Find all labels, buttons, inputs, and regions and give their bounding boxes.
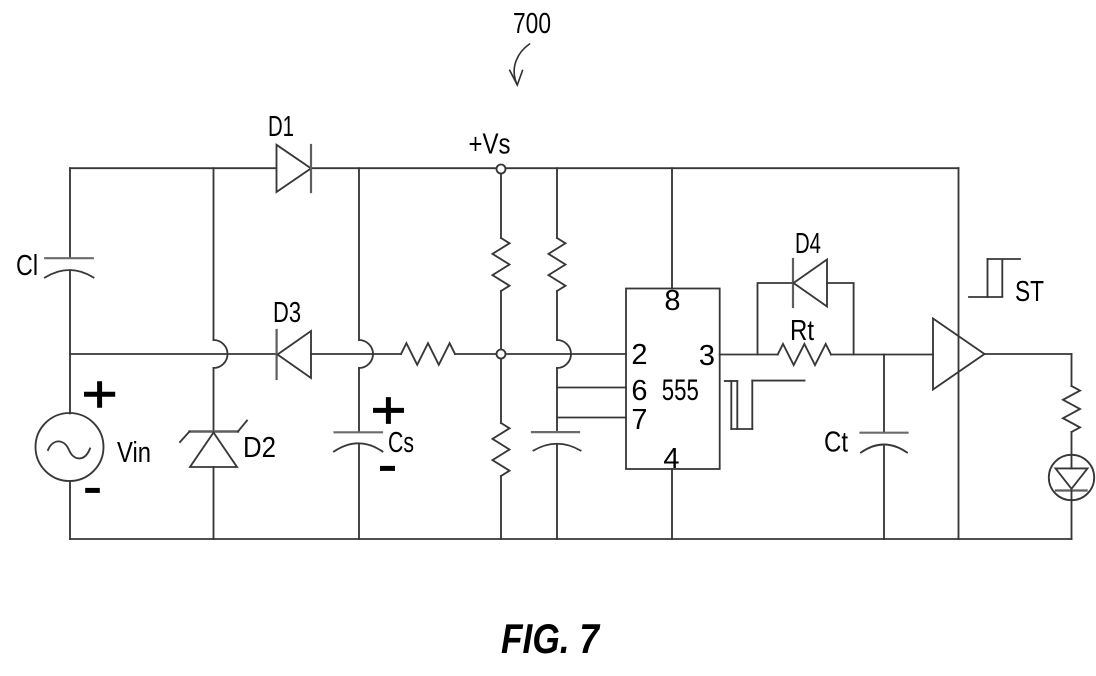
svg-text:D4: D4: [795, 228, 821, 260]
wire pin3 to Rt: [720, 354, 778, 356]
wire top rail: [70, 167, 959, 169]
wire buffer output: [985, 353, 1072, 355]
wire Cs branch to capacitor: [358, 368, 360, 432]
op-amp U1 555 timer box: [626, 289, 720, 470]
wire Cs branch lower: [358, 444, 360, 540]
wire D2 branch upper: [213, 168, 215, 340]
zener diode D2: [180, 421, 247, 468]
resistor R4: [1063, 386, 1080, 432]
svg-text:D3: D3: [273, 297, 301, 329]
arrow to 700: [510, 44, 530, 85]
wire R4 to LED: [1071, 432, 1073, 468]
wire left vertical middle: [69, 271, 71, 414]
wire Rt to buffer: [831, 354, 933, 356]
svg-text:D2: D2: [243, 432, 276, 464]
svg-text:555: 555: [662, 374, 699, 407]
diode D4: [793, 259, 827, 307]
wire hop over middle rail at Cs branch: [359, 340, 373, 368]
resistor R2: [493, 423, 510, 476]
buffer U2: [933, 319, 985, 390]
svg-text:Rt: Rt: [790, 315, 814, 347]
wire D4 loop left: [758, 283, 794, 355]
wire Ct branch: [883, 355, 885, 433]
wire LED lower: [1071, 491, 1073, 540]
capacitor Cs: [334, 432, 383, 451]
wire 555 pin7: [557, 417, 626, 419]
node Vs top: [497, 165, 506, 174]
LED DL1: [1049, 455, 1094, 500]
svg-text:700: 700: [513, 8, 551, 40]
resistor Rt: [778, 344, 831, 365]
wire R3 branch upper: [556, 168, 558, 238]
svg-text:Cs: Cs: [388, 427, 414, 459]
svg-text:7: 7: [631, 404, 647, 436]
wire Vs branch lower: [500, 476, 502, 539]
svg-text:8: 8: [664, 285, 680, 317]
capacitor Ct: [861, 433, 908, 453]
resistor Rs: [401, 343, 455, 365]
label Cs minus: [380, 466, 395, 471]
node Vs middle: [497, 350, 506, 359]
label Vin plus: [84, 381, 115, 408]
wire LED branch upper: [1071, 354, 1073, 386]
capacitor C1: [532, 432, 581, 450]
wire Vs branch R1 to node: [500, 291, 502, 350]
wire left vertical lower: [69, 481, 71, 539]
svg-text:3: 3: [699, 340, 715, 372]
wire Vs branch node to R2: [500, 359, 502, 424]
wire Cs branch upper: [358, 168, 360, 340]
label Vin minus: [85, 488, 100, 493]
wire hop over middle rail at D2 branch: [214, 340, 228, 368]
waveform ST step: [969, 259, 1020, 297]
wire middle rail resistor to 555 pin2: [455, 353, 626, 355]
label Cs plus: [373, 397, 404, 424]
resistor R3: [549, 238, 566, 291]
wire D4 loop right: [827, 283, 854, 355]
waveform pulse at 555 output: [725, 381, 805, 429]
wire 555 pin6: [557, 387, 626, 389]
svg-text:6: 6: [631, 375, 647, 407]
diode D3: [277, 330, 311, 379]
wire left vertical upper: [69, 168, 71, 257]
svg-text:2: 2: [631, 339, 647, 371]
wire C1 lower: [556, 444, 558, 539]
svg-text:Cl: Cl: [16, 250, 38, 282]
wire bottom rail: [70, 538, 1072, 540]
resistor R1: [493, 238, 510, 291]
wire Vs branch upper: [500, 173, 502, 238]
svg-text:D1: D1: [268, 111, 294, 143]
diode D1: [277, 145, 312, 192]
svg-text:Vin: Vin: [117, 437, 151, 469]
svg-text:Ct: Ct: [824, 427, 848, 459]
wire D2 branch to zener: [213, 368, 215, 432]
wire R3 branch to capacitor C1: [556, 368, 558, 432]
wire D2 branch lower: [213, 467, 215, 539]
svg-text:ST: ST: [1015, 276, 1044, 308]
wire 555 pin4: [671, 469, 673, 539]
wire hop over middle rail at R3 branch: [557, 340, 571, 368]
wire middle rail left: [70, 353, 277, 355]
wire middle rail D3 to resistor: [311, 353, 401, 355]
capacitor Cl: [45, 258, 94, 277]
wire right vertical through buffer: [958, 168, 960, 539]
source Vin: [36, 413, 104, 481]
wire 555 pin8: [671, 168, 673, 288]
svg-text:+Vs: +Vs: [469, 129, 511, 161]
svg-text:FIG. 7: FIG. 7: [501, 615, 600, 662]
wire Ct lower: [883, 447, 885, 540]
wire R3 branch to hop: [556, 291, 558, 340]
